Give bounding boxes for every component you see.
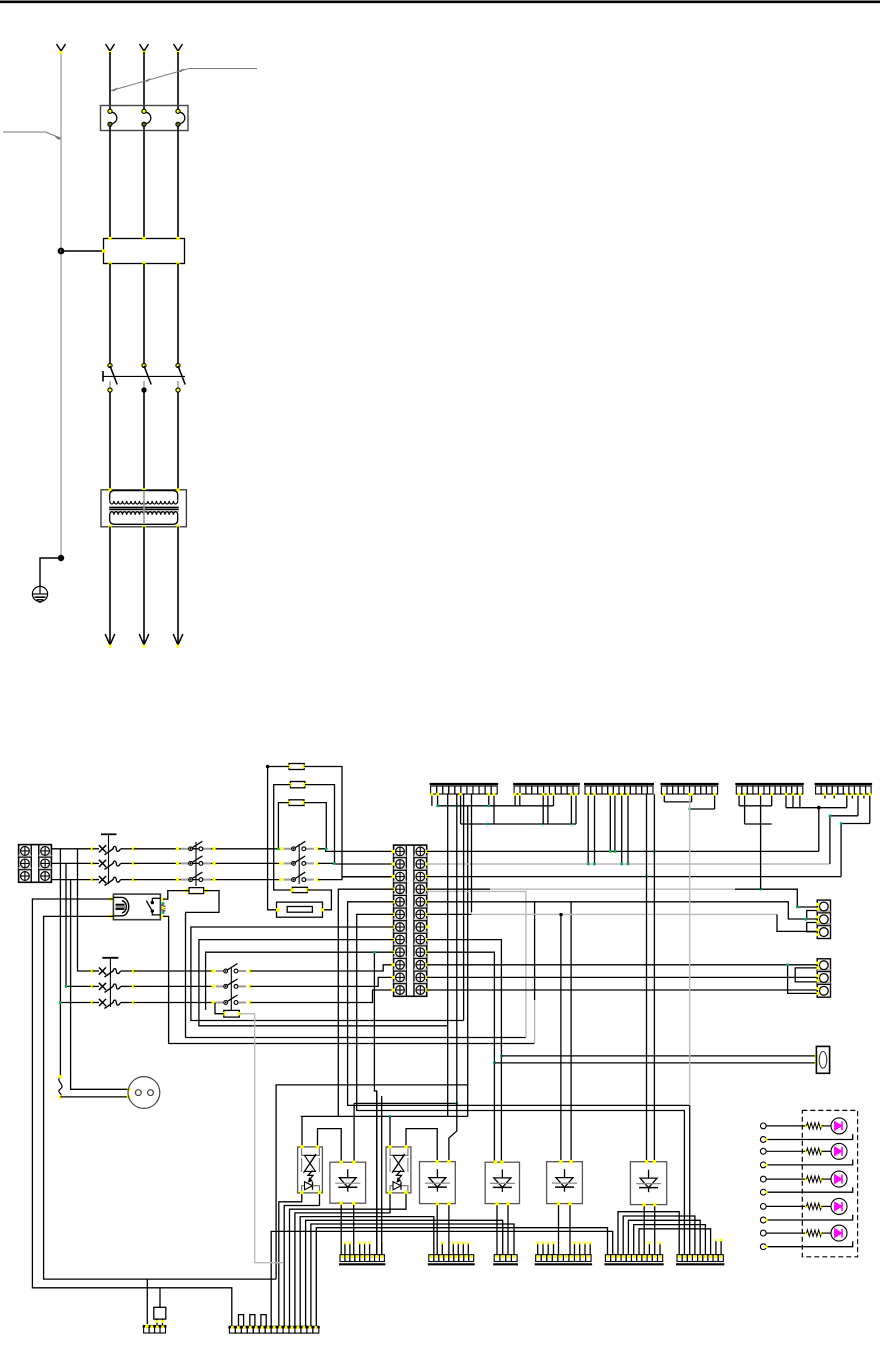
strip row6 gray wire to XA pin3 <box>427 913 472 915</box>
opto1 right to bridge1 left <box>318 1129 342 1163</box>
row9 riser to comb A <box>374 952 376 1254</box>
comb drop v471 <box>471 794 473 912</box>
bus L1 run <box>134 848 281 850</box>
disconnect switch Q1 <box>102 371 104 382</box>
snubber resistor R3 <box>289 800 304 806</box>
contactor K5 pole3 <box>212 1001 215 1004</box>
oval connector XC <box>816 1046 829 1073</box>
circuit breaker Q2 pole3 <box>91 878 94 881</box>
wire phase1 top <box>109 52 111 111</box>
transformer primary winding <box>110 491 178 501</box>
contactor K5 pole1 <box>212 969 215 972</box>
LED return row 3 <box>766 1187 853 1192</box>
strip row4 wire to XA pin1 <box>427 888 490 890</box>
relay feed upper <box>32 899 231 1327</box>
strip row11 wire to XB pin2 <box>427 976 818 978</box>
collector h2 <box>461 823 576 825</box>
comb C3 drops to row2 <box>587 794 589 864</box>
contactor K2 pole1 <box>176 847 179 850</box>
breaker blade <box>105 879 114 885</box>
bus wires from X1 <box>51 848 92 850</box>
strip drops to comb A right teeth <box>376 1091 378 1255</box>
comb drop v463 <box>463 794 465 1020</box>
contactor K3 pole1 <box>279 847 282 850</box>
varistor on relay output <box>161 905 166 912</box>
bridge4 pins <box>559 1160 562 1163</box>
strip row10 wire to XB pin1 <box>427 964 818 966</box>
resistor R4 <box>292 887 307 892</box>
R2nd resistor under K2 <box>189 888 204 894</box>
C6 riser to row3 <box>840 824 842 877</box>
opto2 right to bridge2 left <box>406 1129 437 1162</box>
LED panel dashed enclosure <box>802 1110 857 1256</box>
breaker thermal hook <box>113 877 121 882</box>
socket lower wire <box>60 1096 128 1098</box>
R2 left loop <box>274 785 293 890</box>
bridge5 feeds <box>646 794 648 1161</box>
strip row1 wire right <box>427 850 819 852</box>
tap L3 to socket upper <box>71 880 129 1090</box>
R5 left to line3 <box>215 1003 224 1014</box>
comb B under bridge2 <box>428 1263 475 1265</box>
R1 left loop <box>268 767 289 910</box>
small box connector <box>154 1307 166 1319</box>
strip row6 wire to comb F feed 2 <box>357 914 685 1254</box>
strip row3 wire right <box>427 876 841 878</box>
load arrow <box>173 634 178 645</box>
opto1 bottoms to big comb <box>279 1192 302 1326</box>
contactor K5 linkage <box>230 968 232 1011</box>
strip connection dots <box>392 850 395 853</box>
contactor K2 linkage <box>195 842 197 886</box>
junction box K1 <box>104 239 185 264</box>
wire neutral to box <box>61 250 104 252</box>
breaker group Q3 pole3 <box>91 1001 94 1004</box>
comb C5 drops <box>738 794 740 806</box>
breaker blade <box>105 1002 114 1008</box>
leader annotation to phases <box>112 69 258 91</box>
relay contact <box>152 897 160 899</box>
ground wire <box>58 555 64 561</box>
connector X8 comb <box>143 1325 167 1327</box>
comb F right <box>676 1263 724 1265</box>
R5 right gray drop <box>239 1013 254 1015</box>
bridge1 bottoms to comb A <box>340 1203 342 1255</box>
contactor K2 pole3 <box>176 878 179 881</box>
R1 right loop <box>304 767 393 877</box>
contactor pole <box>108 109 112 113</box>
riser from H1 to loop <box>276 806 468 1279</box>
X9 stub hoops <box>239 1315 244 1327</box>
contactor K3 pole2 <box>279 862 282 865</box>
opto-bridge feed wires <box>301 1115 468 1117</box>
connector XB 3pin <box>817 959 830 997</box>
neutral tap junction <box>58 248 65 255</box>
wire phase2 top <box>143 52 145 111</box>
breaker blade <box>105 863 114 869</box>
comb C6 drops <box>846 794 848 807</box>
bridge5 bottoms to comb E <box>643 1205 645 1255</box>
breaker Q2 linkage <box>101 833 117 835</box>
feed to small box <box>159 1288 161 1308</box>
bus L3 run <box>134 879 281 881</box>
tap L2 to breaker2 <box>66 863 91 986</box>
double line jog <box>427 891 526 893</box>
bridge3 bottoms to comb C <box>496 1204 498 1255</box>
transformer secondary winding <box>110 512 178 515</box>
wire transformer secondary <box>143 527 145 644</box>
collector h1 <box>438 805 554 807</box>
comb A stub riser <box>381 1243 383 1255</box>
comb C1 drops <box>431 794 433 806</box>
loop wire hA <box>186 1037 526 1039</box>
comb C4 drops <box>663 794 665 802</box>
bundle to comb B tooth <box>300 1217 434 1327</box>
relay coil symbol <box>113 896 122 898</box>
contactor K2 pole2 <box>176 862 179 865</box>
contactor K3 pole3 <box>279 878 282 881</box>
top border rule <box>0 0 880 3</box>
opto2 bottoms to big comb <box>290 1192 407 1326</box>
breaker thermal hook <box>113 984 121 989</box>
gray drop from C4 to comb F riser <box>689 794 691 1105</box>
C6 riser to row1 <box>818 808 820 852</box>
bundle to comb E teeth <box>316 1228 607 1327</box>
wire h1103 <box>354 1102 457 1104</box>
load arrow <box>139 634 144 645</box>
bridge1 right feed <box>353 1103 355 1162</box>
tap L1 to breaker2 line1 <box>78 849 92 971</box>
leader annotation to neutral <box>3 132 61 138</box>
bus L2 run <box>134 862 281 864</box>
breaker blade <box>105 986 114 992</box>
comb C2 drops <box>514 794 516 806</box>
R2 right loop <box>305 785 335 864</box>
contactor K5 pole2 <box>212 985 215 988</box>
supply arrow N <box>57 44 62 51</box>
breaker thermal hook <box>113 969 121 974</box>
wire switch to transformer <box>109 392 111 490</box>
LED return row 5 <box>766 1241 853 1246</box>
LED indicator row 3 <box>766 1178 806 1180</box>
strip row5 wire to XA pin2 <box>427 902 818 919</box>
relay feed lower <box>44 916 277 1279</box>
load arrow <box>105 634 110 645</box>
bridge3 pins <box>494 1161 497 1164</box>
LED return row 1 <box>766 1134 853 1139</box>
wire to oval lower <box>494 1062 816 1064</box>
relay K4 box <box>113 894 160 920</box>
transformer T1 box <box>101 490 186 527</box>
breaker2 line3 left end <box>60 1002 91 1004</box>
circuit breaker Q2 pole2 <box>91 862 94 865</box>
wire pole drop <box>109 264 111 366</box>
resistor R5 <box>224 1010 240 1017</box>
strip row5 wire to comb F feed 1 <box>348 902 690 1255</box>
breaker2 lines to strip <box>251 965 394 971</box>
comb E under bridge5 <box>604 1263 663 1265</box>
snubber resistor R2 <box>290 782 305 788</box>
wire L1 gray neutral vertical <box>60 52 62 558</box>
gray drop to loop A <box>525 892 527 1038</box>
socket outlet symbol <box>128 1077 160 1109</box>
LED return row 4 <box>766 1215 853 1220</box>
snubber resistor R1 <box>289 764 304 770</box>
breaker thermal hook <box>113 861 121 866</box>
breaker group Q3 pole2 <box>91 985 94 988</box>
circuit breaker Q2 pole1 <box>91 847 94 850</box>
R2nd left wire to relay <box>163 891 189 900</box>
bridge4 bottoms to comb D <box>558 1204 560 1255</box>
LED indicator row 5 <box>766 1232 806 1234</box>
collector C5-C6 <box>786 807 847 809</box>
XA jumpers <box>807 911 818 919</box>
comb C under bridge3 <box>493 1263 518 1265</box>
bridge2 bottoms to comb B <box>436 1204 438 1255</box>
breaker thermal hook <box>113 846 121 851</box>
terminal strip X2 <box>394 845 427 996</box>
drop v571 to bridge4 <box>570 902 572 1162</box>
R2nd right loop <box>186 891 220 1038</box>
left drop taps <box>59 849 61 1077</box>
comb D under bridge4 <box>535 1263 592 1265</box>
comb A under bridge1 <box>339 1263 385 1265</box>
C6 riser to row2 <box>829 816 831 864</box>
wire to oval upper <box>501 1055 816 1057</box>
strip row9 wire to oval and bridge3 <box>427 952 495 1162</box>
strip row9 wire west <box>206 952 394 1010</box>
LED indicator row 4 <box>766 1205 806 1207</box>
comb F to comb E bundle <box>618 1212 679 1255</box>
LED indicator row 1 <box>766 1125 806 1127</box>
transformer core <box>109 506 179 508</box>
top comb connectors <box>430 783 499 785</box>
breaker blade <box>105 849 114 855</box>
ground electrode symbol <box>32 586 47 601</box>
drop v534 <box>534 902 536 1000</box>
wire switch to transformer <box>177 392 179 490</box>
squiggle flex wire <box>59 1077 62 1097</box>
connector XA 3pin <box>817 900 830 938</box>
breaker thermal hook <box>113 1000 121 1005</box>
R3 right loop <box>304 803 326 849</box>
strip row8 wire to oval and bridge3 <box>427 940 502 1163</box>
breaker group Q3 pole1 <box>91 969 94 972</box>
strip row4 wire down to opto feeds <box>338 889 393 1116</box>
wire switch to transformer <box>143 392 145 490</box>
contactor K3 linkage <box>298 844 300 884</box>
LED return row 2 <box>766 1160 853 1165</box>
supply arrow phase 2 <box>140 44 145 51</box>
breaker blade <box>105 971 114 977</box>
feed to connector X8 <box>146 1279 148 1327</box>
breaker Q3 linkage <box>102 957 118 959</box>
drop v561 to bridge4 <box>560 914 562 1161</box>
wire pole drop <box>143 264 145 366</box>
comb drop v447 <box>447 794 449 1116</box>
fuse-contactor F1 box <box>101 106 189 131</box>
comb C3 drops to row1 <box>609 794 611 851</box>
LED indicator row 2 <box>766 1150 806 1152</box>
bridge2 right feed jog <box>449 794 457 1161</box>
relay output loop <box>163 916 535 1043</box>
strip row2 gray wire right <box>427 863 830 865</box>
supply arrow phase 3 <box>174 44 179 51</box>
wire phase3 top <box>177 52 179 111</box>
bridge boxes and optocouplers <box>298 1147 323 1193</box>
bundle to comb C teeth <box>306 1220 503 1326</box>
XB jumpers <box>788 965 818 994</box>
gray wire to big comb <box>255 1014 284 1263</box>
R4 to heater loop <box>307 890 331 910</box>
wire pole drop <box>177 264 179 366</box>
relay terminals <box>109 897 112 900</box>
strip row7 wire down and east to v463 <box>191 927 464 1021</box>
strip row12 wire to XB pin3 <box>427 989 818 991</box>
bus into strip <box>318 849 394 852</box>
terminal block X1 (mains in) <box>19 845 52 883</box>
strip row8 wire down and east to v447 <box>199 940 448 1026</box>
bottom big comb X9 <box>228 1326 319 1328</box>
contactor pole <box>142 109 146 113</box>
comb A-F teeth dots <box>341 1255 344 1258</box>
wire transformer secondary <box>109 527 111 644</box>
wire transformer secondary <box>177 527 179 644</box>
v467 lower extension <box>467 1085 469 1117</box>
R3 left loop <box>278 803 289 849</box>
heater RB box <box>277 902 323 917</box>
contactor pole <box>176 109 180 113</box>
supply arrow phase 1 <box>106 44 111 51</box>
breaker2 lines run <box>134 970 214 972</box>
